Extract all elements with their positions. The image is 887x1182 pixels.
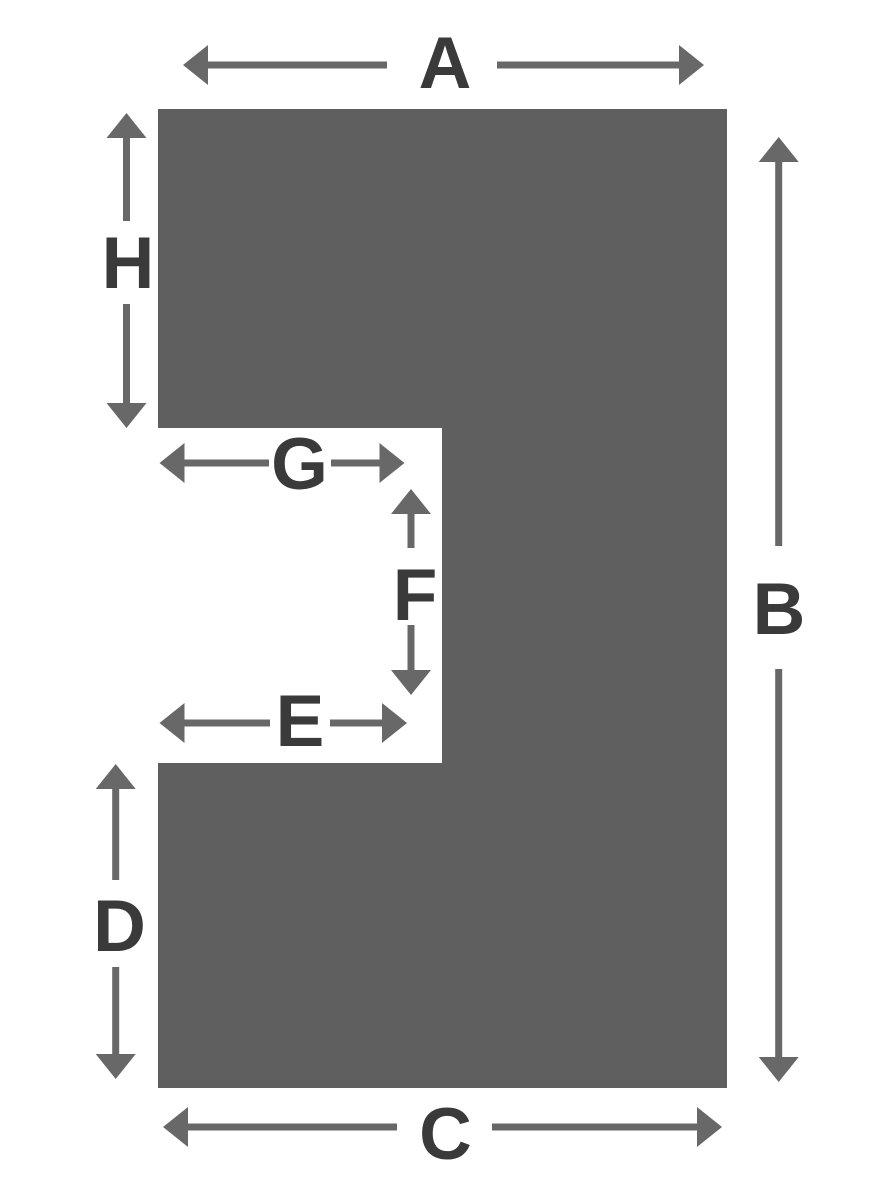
dimension F bottom arrow [391,625,431,695]
dimension C right arrow [492,1107,722,1147]
svg-text:F: F [393,555,438,636]
svg-text:H: H [102,223,155,304]
dimension B top arrow [759,137,799,546]
svg-text:B: B [753,569,806,650]
svg-text:G: G [271,424,328,505]
dimension E left arrow [160,703,271,743]
dimension G right arrow [331,443,405,483]
dimension G left arrow [160,443,270,483]
dimension C left arrow [163,1107,397,1147]
svg-text:E: E [276,681,325,762]
svg-text:D: D [93,886,146,967]
dimension H bottom arrow [107,304,147,428]
dimension B bottom arrow [759,669,799,1082]
dimension D bottom arrow [96,967,136,1079]
dimension F top arrow [391,489,431,548]
dimension E right arrow [330,703,407,743]
svg-text:A: A [419,23,472,104]
dimension D top arrow [96,764,136,880]
dimension A left arrow [183,45,387,85]
dimension A right arrow [497,45,704,85]
dimension H top arrow [107,113,147,221]
C-bracket shape [158,109,727,1088]
svg-text:C: C [419,1094,472,1175]
